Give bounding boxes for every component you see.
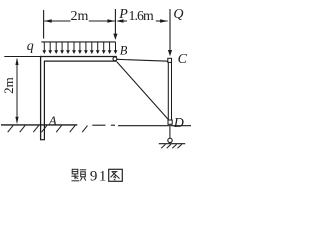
- support ground hatches under D: [161, 144, 182, 148]
- svg-text:2m: 2m: [71, 9, 89, 24]
- node square at C: [168, 58, 172, 62]
- beam top chord (corner to B): [40, 56, 117, 58]
- support ground line under D: [159, 143, 185, 145]
- dimension extension tick (left end of 2m dimension): [43, 10, 45, 39]
- svg-text:91: 91: [90, 168, 108, 184]
- link member B-C: [117, 59, 168, 61]
- right column line left: [167, 62, 169, 120]
- force P arrowhead: [113, 34, 117, 40]
- svg-text:1.6m: 1.6m: [129, 8, 155, 23]
- dimension line 1.6m (left stub): [123, 20, 128, 22]
- left column bottom cap: [40, 139, 45, 141]
- ground reference line through D: [118, 125, 191, 127]
- vertical dimension line 2m: [16, 59, 18, 123]
- force P arrow shaft: [114, 9, 116, 35]
- svg-text:A: A: [48, 113, 57, 128]
- ground line at A: [1, 124, 77, 126]
- svg-text:D: D: [173, 116, 184, 131]
- dimension line 2m (left segment): [44, 20, 70, 22]
- dimension arrowhead left (1.6m): [116, 19, 124, 22]
- dimension arrowhead right (2m): [107, 19, 115, 22]
- ground reference chain line: dot: [111, 124, 115, 126]
- hinge circle at B: [113, 57, 117, 61]
- vertical dimension arrowhead up: [15, 58, 18, 65]
- svg-text:Q: Q: [173, 7, 183, 22]
- caption character 题 (drawn): [71, 169, 86, 181]
- dimension arrowhead left (2m): [44, 19, 52, 22]
- distributed load arrows: [44, 42, 115, 50]
- diagonal member B-D: [117, 62, 168, 120]
- dimension arrowhead right (1.6m): [160, 19, 168, 22]
- left column outer line: [40, 56, 42, 140]
- dimension line 2m (right segment): [89, 20, 115, 22]
- extension line left of frame corner (top of 2m height dim): [4, 56, 40, 58]
- svg-text:2m: 2m: [1, 77, 16, 94]
- distributed load q top line: [41, 41, 115, 43]
- caption character 图 (drawn): [109, 169, 123, 181]
- node square at D: [168, 120, 172, 124]
- svg-text:C: C: [178, 52, 188, 67]
- support link under D: [169, 127, 171, 139]
- ground hatches at A: [8, 126, 88, 133]
- left column inner line: [43, 61, 45, 140]
- svg-text:B: B: [120, 44, 128, 58]
- svg-text:q: q: [27, 39, 34, 54]
- support roller circle under D: [168, 138, 172, 142]
- beam bottom chord: [44, 60, 117, 62]
- vertical dimension arrowhead down: [15, 117, 18, 124]
- force Q arrow shaft: [169, 9, 171, 51]
- force Q arrowhead: [168, 50, 172, 56]
- right column line right: [171, 62, 173, 120]
- dimension line 1.6m (right segment): [156, 20, 168, 22]
- ground reference chain line: dash: [92, 124, 105, 126]
